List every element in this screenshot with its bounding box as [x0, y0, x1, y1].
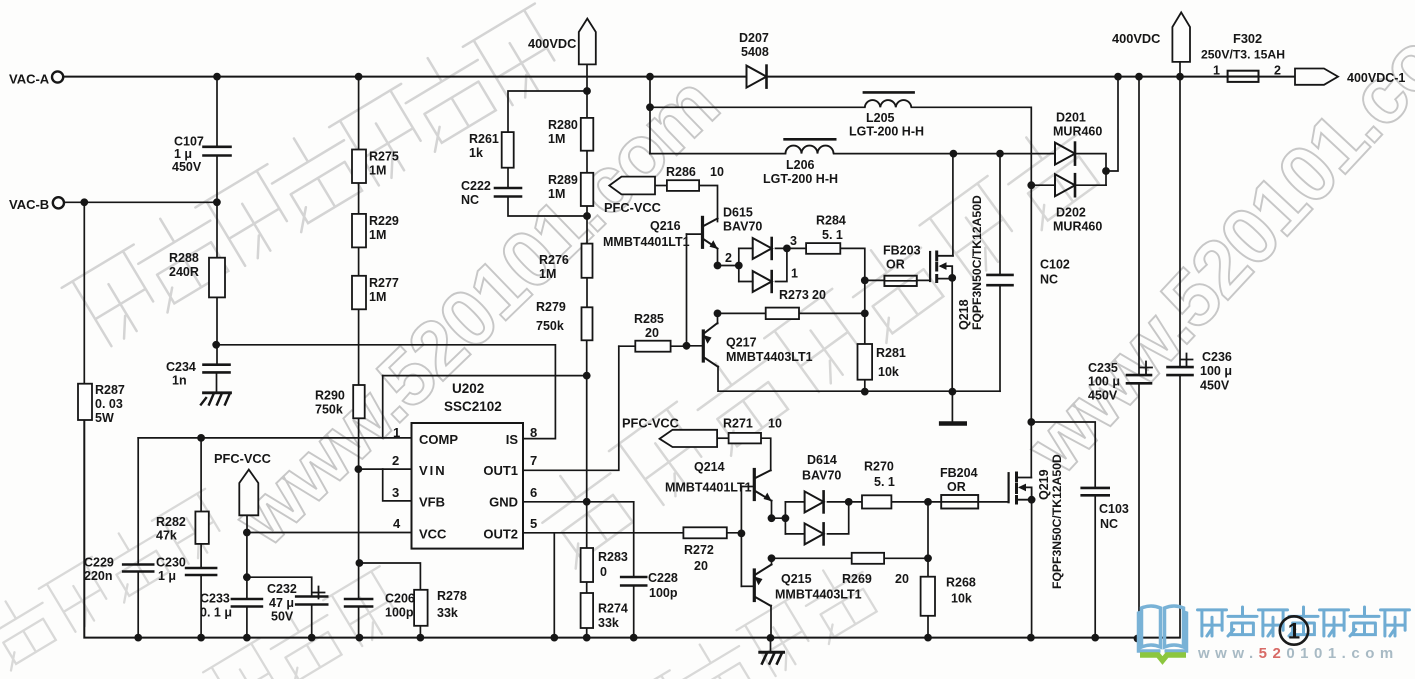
svg-text:R271: R271 — [723, 417, 753, 431]
capacitor C102 — [988, 258, 1070, 287]
svg-text:10k: 10k — [951, 592, 972, 606]
wire Q214 base — [741, 486, 754, 488]
node junction dots — [213, 73, 221, 81]
svg-text:COMP: COMP — [419, 432, 458, 447]
wire to D615 pin3 diode — [739, 247, 753, 249]
capacitor C234 — [166, 360, 230, 388]
svg-text:R275: R275 — [369, 150, 399, 164]
wire lower base tie vertical — [740, 487, 742, 587]
svg-text:R287: R287 — [95, 383, 125, 397]
svg-text:R273: R273 — [779, 288, 809, 302]
wire rail down to L205 L206 — [649, 77, 651, 154]
wire COMP loop vertical — [382, 376, 384, 438]
svg-text:VAC-B: VAC-B — [9, 197, 49, 212]
power flag 400VDC right — [1112, 12, 1190, 62]
resistor R286 — [666, 165, 724, 191]
svg-text:750k: 750k — [315, 403, 343, 417]
wire gate node down to R268 — [927, 502, 929, 577]
svg-text:R277: R277 — [369, 276, 399, 290]
svg-text:LGT-200 H-H: LGT-200 H-H — [763, 172, 838, 186]
svg-text:MMBT4403LT1: MMBT4403LT1 — [775, 588, 862, 602]
svg-text:4: 4 — [393, 516, 401, 531]
inductor L205 — [849, 92, 924, 138]
capacitor C206 — [345, 592, 415, 620]
wire PFC-VCC arrow stem — [246, 515, 248, 532]
diode D614 dual BAV70 — [802, 453, 841, 544]
resistor R272 — [683, 527, 726, 573]
svg-text:L206: L206 — [786, 158, 815, 172]
wire R289-R276 — [586, 206, 588, 244]
svg-text:0. 1 μ: 0. 1 μ — [200, 606, 232, 620]
resistor R268 — [921, 576, 976, 616]
wire C233 bottom — [246, 607, 248, 638]
svg-text:R288: R288 — [169, 251, 199, 265]
svg-text:NC: NC — [1040, 273, 1058, 287]
wire R281 to source line — [864, 380, 866, 392]
svg-text:3: 3 — [392, 485, 399, 500]
svg-text:5: 5 — [530, 516, 537, 531]
wire R272 to base node — [727, 532, 742, 534]
watermark chinese partial bottom center — [610, 553, 886, 684]
capacitor C103 — [1082, 488, 1129, 531]
svg-text:FQPF3N50C/TK12A50D: FQPF3N50C/TK12A50D — [970, 195, 984, 330]
wire R271 to Q214 collector — [761, 438, 771, 470]
svg-text:2: 2 — [1274, 64, 1281, 78]
svg-text:10k: 10k — [878, 365, 899, 379]
svg-text:450V: 450V — [172, 160, 202, 174]
wire D202 anode — [1031, 184, 1055, 186]
wire D202 cathode — [1077, 184, 1107, 186]
svg-text:R279: R279 — [536, 300, 566, 314]
wire C228 top — [633, 502, 635, 577]
svg-text:IS: IS — [506, 432, 519, 447]
svg-text:MMBT4403LT1: MMBT4403LT1 — [726, 350, 813, 364]
svg-text:20: 20 — [812, 288, 826, 302]
wire Q216 base — [687, 233, 703, 235]
diode D201 — [1053, 111, 1102, 165]
wire D615 anode bracket — [738, 248, 740, 281]
svg-text:VFB: VFB — [419, 495, 445, 510]
svg-text:D207: D207 — [739, 31, 769, 45]
svg-text:47k: 47k — [156, 529, 177, 543]
svg-text:R283: R283 — [598, 550, 628, 564]
svg-text:1: 1 — [791, 267, 798, 281]
capacitor C236 — [1168, 350, 1232, 393]
svg-text:6: 6 — [530, 485, 537, 500]
svg-text:D201: D201 — [1056, 111, 1086, 125]
svg-text:Q217: Q217 — [726, 336, 757, 350]
svg-text:U202: U202 — [452, 381, 484, 396]
logo book icon — [1139, 606, 1187, 651]
svg-text:C229: C229 — [84, 556, 114, 570]
svg-text:1n: 1n — [172, 374, 187, 388]
transistor Q217 — [703, 323, 812, 367]
svg-text:1: 1 — [393, 425, 400, 440]
svg-text:VAC-A: VAC-A — [9, 72, 50, 87]
svg-text:10: 10 — [710, 165, 724, 179]
wire top rail VAC-A to D207 — [64, 76, 747, 78]
capacitor C229 — [84, 556, 153, 584]
svg-text:2: 2 — [725, 251, 732, 265]
svg-text:D615: D615 — [723, 206, 753, 220]
svg-text:47 μ: 47 μ — [269, 596, 294, 610]
svg-text:100 μ: 100 μ — [1088, 375, 1120, 389]
resistor R278 — [414, 589, 467, 626]
svg-text:VCC: VCC — [419, 527, 447, 542]
wire Q218 drain up — [952, 154, 954, 256]
wire R270 to FB204 — [891, 501, 941, 503]
resistor R282 — [156, 512, 209, 544]
resistor R277 — [352, 276, 399, 310]
wire L205 to D202 and Q219 drain — [911, 107, 1031, 477]
power flag PFC-VCC lower-mid — [622, 416, 717, 448]
svg-text:OR: OR — [947, 480, 966, 494]
ferrite bead FB204 — [940, 466, 978, 509]
capacitor C222 — [461, 179, 521, 207]
svg-text:1k: 1k — [469, 146, 483, 160]
svg-text:R276: R276 — [539, 253, 569, 267]
svg-text:1: 1 — [1288, 619, 1300, 644]
watermark www.520101.com diagonal left-center — [217, 59, 734, 562]
svg-text:OUT1: OUT1 — [483, 463, 518, 478]
svg-text:C232: C232 — [267, 582, 297, 596]
svg-text:R261: R261 — [469, 132, 499, 146]
wire diode join up to rail — [1106, 77, 1118, 171]
svg-text:R272: R272 — [684, 543, 714, 557]
wire R285 to base tie — [671, 345, 687, 347]
wire R269 to R268 node — [884, 557, 928, 559]
wire COMP loop top — [383, 375, 587, 377]
wire C103 top — [1031, 422, 1095, 488]
resistor R270 — [862, 460, 895, 509]
svg-text:L205: L205 — [866, 111, 895, 125]
svg-text:100p: 100p — [649, 586, 678, 600]
svg-text:400VDC: 400VDC — [1112, 31, 1160, 46]
resistor R281 — [858, 344, 906, 380]
wire C102 top — [999, 154, 1001, 275]
wire OUT1 pin7 — [523, 346, 619, 470]
wire D201 cathode corner — [1077, 154, 1107, 186]
svg-text:C234: C234 — [166, 360, 196, 374]
svg-text:5408: 5408 — [741, 45, 769, 59]
svg-text:1: 1 — [1213, 64, 1220, 78]
resistor R275 — [352, 150, 399, 184]
wire Q217 collector source line — [718, 367, 1000, 392]
wire R276-R279 — [586, 278, 588, 308]
wire C102 bottom — [999, 285, 1001, 391]
svg-text:FB204: FB204 — [940, 466, 978, 480]
svg-text:R268: R268 — [946, 576, 976, 590]
svg-text:F302: F302 — [1233, 31, 1262, 46]
svg-text:R290: R290 — [315, 389, 345, 403]
svg-text:R280: R280 — [548, 118, 578, 132]
mosfet Q219 — [1009, 473, 1032, 503]
wire C232 link — [247, 577, 312, 596]
chassis ground Q218 source — [941, 421, 965, 426]
svg-text:R278: R278 — [437, 589, 467, 603]
wire R277-R290 — [358, 309, 360, 385]
capacitor C228 — [621, 571, 678, 600]
svg-text:8: 8 — [530, 425, 537, 440]
op-amp U202 SSC2102 box — [412, 381, 524, 549]
wire C229 top — [137, 438, 139, 565]
logo url www.520101.com — [1197, 645, 1399, 662]
svg-text:1 μ: 1 μ — [174, 147, 192, 161]
wire R283-R274 — [586, 582, 588, 593]
svg-text:20: 20 — [694, 559, 708, 573]
svg-text:400VDC-1: 400VDC-1 — [1347, 71, 1405, 85]
watermark chinese partial bottom edge — [140, 561, 411, 684]
wire Q218 source down — [951, 279, 953, 392]
svg-text:1M: 1M — [548, 132, 565, 146]
svg-text:MUR460: MUR460 — [1053, 220, 1102, 234]
resistor R290 — [315, 385, 365, 418]
wire R275-R229 — [358, 183, 360, 214]
svg-text:10: 10 — [768, 417, 782, 431]
fuse F302 — [1201, 31, 1285, 82]
svg-text:D614: D614 — [807, 453, 837, 467]
svg-text:BAV70: BAV70 — [723, 220, 762, 234]
wire R284 to gate node down to R281 — [840, 248, 865, 344]
wire C235 to rail — [1138, 383, 1140, 637]
wire C107 top — [216, 77, 218, 147]
svg-text:PFC-VCC: PFC-VCC — [604, 200, 661, 215]
wire VCC pin4 PFC-VCC line — [247, 532, 412, 534]
wire R288 to C234 node — [216, 297, 218, 364]
svg-text:0: 0 — [600, 565, 607, 579]
svg-text:SSC2102: SSC2102 — [444, 399, 502, 414]
svg-text:R289: R289 — [548, 173, 578, 187]
svg-text:R269: R269 — [842, 572, 872, 586]
watermark chinese row top-left — [57, 0, 573, 353]
wire gate node to FB203 — [865, 279, 885, 281]
wire R279 down to R283 — [586, 340, 588, 548]
watermark www.520101.com diagonal right — [1009, 0, 1415, 490]
wire C234 to ground — [216, 372, 218, 392]
resistor R279 — [536, 300, 593, 340]
wire D615 pin3 cathode to R284 — [776, 247, 807, 249]
wire PFC-VCC to R271 — [717, 437, 729, 439]
wire top rail D207 to 400VDC-1 arrow — [769, 76, 1296, 78]
svg-text:1M: 1M — [369, 290, 386, 304]
wire R261 to C222 — [507, 168, 509, 188]
wire L206 to D201 — [834, 153, 1055, 155]
svg-text:D202: D202 — [1056, 206, 1086, 220]
svg-text:C206: C206 — [385, 592, 415, 606]
wire Q214 emitter to D614 node — [772, 501, 786, 519]
capacitor C232 — [267, 582, 327, 624]
wire FB204 to Q219 gate — [978, 473, 1008, 502]
wire VAC-B down to R287 — [83, 202, 85, 383]
svg-text:5W: 5W — [95, 411, 114, 425]
resistor R284 — [806, 214, 846, 254]
diode D207 — [739, 31, 769, 88]
svg-text:Q216: Q216 — [650, 219, 681, 233]
svg-text:33k: 33k — [598, 616, 619, 630]
transistor Q214 — [665, 460, 772, 501]
wire PFC-VCC to R286 — [655, 185, 667, 187]
wire emitter node to R269 — [772, 557, 852, 559]
wire FB203 to Q218 gate — [917, 252, 930, 280]
svg-text:C222: C222 — [461, 179, 491, 193]
svg-text:MMBT4401LT1: MMBT4401LT1 — [665, 481, 752, 495]
svg-text:NC: NC — [1100, 517, 1118, 531]
wire R282 top — [200, 438, 202, 512]
svg-text:C103: C103 — [1099, 502, 1129, 516]
wire VIN pin2 — [358, 468, 411, 470]
output flag 400VDC-1 — [1295, 69, 1405, 86]
wire rail to R275 — [358, 77, 360, 150]
wire emitter node to R273 — [718, 312, 766, 314]
transistor Q215 — [754, 565, 861, 607]
wire OUT2 branch down — [553, 533, 555, 638]
wire R268 to rail — [927, 616, 929, 638]
wire C233 top — [246, 533, 248, 600]
ground at C234 — [201, 393, 231, 405]
svg-text:C230: C230 — [156, 556, 186, 570]
svg-text:450V: 450V — [1088, 389, 1118, 403]
svg-text:OUT2: OUT2 — [483, 527, 518, 542]
wire D614 cathode to R270 — [828, 501, 863, 503]
resistor R285 — [634, 312, 671, 352]
wire to D615 pin1 diode — [739, 281, 753, 283]
svg-text:C236: C236 — [1202, 350, 1232, 364]
wire Q216 emitter to D615 node — [718, 250, 739, 266]
capacitor C235 — [1088, 361, 1152, 403]
wire D615 pin1 cathode up — [776, 248, 787, 281]
svg-text:Q219: Q219 — [1037, 469, 1051, 500]
resistor R269 — [842, 553, 909, 586]
svg-text:5. 1: 5. 1 — [822, 228, 843, 242]
wire C222 to R289 node — [508, 197, 587, 217]
wire C236 bottom — [1179, 375, 1181, 637]
svg-text:MMBT4401LT1: MMBT4401LT1 — [603, 235, 690, 249]
svg-text:1 μ: 1 μ — [158, 569, 176, 583]
svg-text:R281: R281 — [876, 346, 906, 360]
svg-text:450V: 450V — [1200, 379, 1230, 393]
resistor R274 — [581, 593, 628, 630]
resistor R276 — [539, 244, 593, 281]
svg-text:5. 1: 5. 1 — [874, 475, 895, 489]
svg-text:3: 3 — [790, 234, 797, 248]
svg-text:1M: 1M — [539, 267, 556, 281]
svg-text:www.520101.com: www.520101.com — [1197, 645, 1399, 662]
diode D202 — [1053, 174, 1102, 233]
circled number 1 — [1280, 616, 1308, 644]
resistor R289 — [548, 173, 593, 206]
watermark chinese partial bottom-left — [0, 483, 234, 684]
wire D614 anode bracket — [784, 502, 786, 534]
wire Q217 base — [687, 345, 704, 347]
wire 400VDC down to C236 — [1179, 62, 1181, 367]
wire GND pin6 — [523, 501, 634, 503]
wire OUT2 pin5 — [523, 532, 683, 534]
wire Q219 source to rail — [1031, 500, 1033, 638]
svg-text:OR: OR — [886, 258, 905, 272]
wire R274 to rail — [586, 628, 588, 638]
svg-text:GND: GND — [489, 495, 518, 510]
svg-text:PFC-VCC: PFC-VCC — [622, 416, 679, 431]
wire D614 bottom cathode up — [828, 502, 849, 534]
wire C229 bottom — [137, 572, 139, 638]
svg-text:NC: NC — [461, 193, 479, 207]
wire Q217 emitter stub — [717, 313, 719, 323]
svg-text:R229: R229 — [369, 214, 399, 228]
wire C228 bottom — [633, 586, 635, 638]
wire VFB pin3 — [383, 469, 412, 501]
mosfet Q218 — [930, 252, 953, 282]
svg-text:100 μ: 100 μ — [1200, 364, 1232, 378]
power flag PFC-VCC lower-left — [214, 451, 271, 515]
resistor R287 — [78, 383, 125, 425]
inductor L206 — [763, 139, 838, 186]
resistor R283 — [581, 548, 628, 582]
svg-text:FB203: FB203 — [883, 244, 921, 258]
hatch ground Q215 — [760, 652, 784, 663]
wire L206 left — [650, 153, 786, 155]
wire R278 bottom — [419, 626, 421, 638]
svg-text:PFC-VCC: PFC-VCC — [214, 451, 271, 466]
wire R278 top — [359, 563, 420, 590]
svg-text:VIN: VIN — [419, 463, 447, 478]
logo chinese text — [1198, 607, 1410, 636]
wire C230 to rail — [200, 575, 202, 638]
svg-text:R270: R270 — [864, 460, 894, 474]
label Q219 rotated — [1037, 454, 1064, 589]
capacitor C230 — [156, 556, 216, 584]
svg-text:R282: R282 — [156, 515, 186, 529]
wire L205 left — [650, 106, 865, 108]
ferrite bead FB203 — [883, 244, 921, 287]
resistor R229 — [352, 214, 399, 248]
svg-text:100p: 100p — [385, 606, 414, 620]
resistor R288 — [169, 251, 225, 297]
svg-text:Q214: Q214 — [694, 460, 725, 474]
wire R261 branch top — [508, 91, 587, 132]
transistor Q216 — [603, 217, 718, 249]
wire C232 bottom — [311, 605, 313, 638]
wire R286 to Q216 collector — [699, 186, 717, 222]
wire Q215 collector to rail — [770, 606, 772, 639]
svg-text:2: 2 — [392, 453, 399, 468]
svg-text:33k: 33k — [437, 606, 458, 620]
svg-text:240R: 240R — [169, 265, 199, 279]
watermark chinese row center-right — [526, 113, 1109, 569]
svg-text:R285: R285 — [634, 312, 664, 326]
svg-text:C102: C102 — [1040, 258, 1070, 272]
wire rail to hatch ground — [770, 638, 772, 652]
svg-text:400VDC: 400VDC — [528, 36, 576, 51]
svg-text:0. 03: 0. 03 — [95, 397, 123, 411]
wire R290 down VIN node — [358, 418, 360, 599]
terminal VAC-A — [9, 71, 63, 86]
svg-text:220n: 220n — [84, 569, 113, 583]
wire COMP pin1 line — [138, 437, 411, 439]
svg-text:R284: R284 — [816, 214, 846, 228]
terminal VAC-B — [9, 197, 64, 212]
resistor R261 — [469, 132, 514, 168]
svg-text:BAV70: BAV70 — [802, 469, 841, 483]
U202 pin numbers — [392, 425, 537, 531]
wire C103 bottom — [1094, 495, 1096, 637]
capacitor C107 — [172, 135, 231, 175]
svg-text:R274: R274 — [598, 602, 628, 616]
wire Q215 emitter stub — [771, 558, 773, 564]
resistor R271 — [723, 417, 782, 444]
svg-text:50V: 50V — [271, 610, 294, 624]
power flag PFC-VCC upper — [604, 177, 661, 215]
wire C206 to rail — [358, 607, 360, 638]
